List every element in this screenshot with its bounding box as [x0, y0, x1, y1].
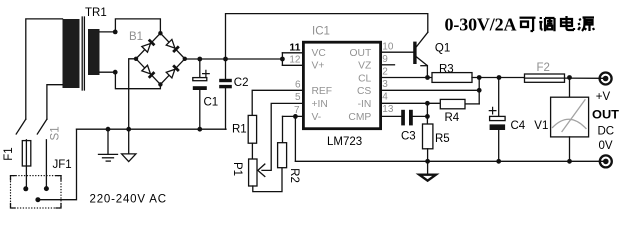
- node R3 right: [477, 75, 482, 80]
- svg-text:REF: REF: [312, 86, 333, 97]
- output rail after R3: [472, 77, 525, 79]
- terminal 0V: [600, 155, 612, 167]
- svg-text:CL: CL: [358, 73, 371, 84]
- node JF1 pin L: [23, 186, 28, 191]
- svg-text:10: 10: [382, 41, 394, 52]
- wire pole2 to JF1: [45, 140, 47, 189]
- svg-text:9: 9: [382, 54, 388, 65]
- node pin11-12 feed: [280, 57, 285, 62]
- wire primary top: [26, 19, 63, 119]
- resistor R4: [440, 99, 465, 108]
- fuse F2: [525, 74, 565, 82]
- diode D1 top-left: [142, 39, 156, 53]
- node earth junction: [106, 127, 111, 132]
- svg-text:VZ: VZ: [358, 61, 371, 72]
- wire P1 bottom to R2 bottom: [253, 168, 282, 192]
- wire primary bottom: [47, 85, 63, 120]
- svg-text:R4: R4: [445, 112, 460, 124]
- diode D2 top-right: [166, 39, 180, 53]
- svg-text:6: 6: [295, 80, 301, 91]
- svg-text:JF1: JF1: [53, 159, 72, 171]
- svg-text:12: 12: [289, 54, 301, 65]
- svg-text:C4: C4: [511, 120, 526, 132]
- hanzi DIAN: [561, 16, 574, 30]
- wire secondary bottom to bridge: [100, 72, 161, 89]
- svg-text:DC: DC: [598, 125, 615, 137]
- pin 9 stub: [381, 64, 395, 66]
- wire F2 to +V: [565, 77, 604, 79]
- fuse F1: [22, 141, 31, 166]
- node bridge AC top: [158, 31, 162, 35]
- node bridge AC bottom: [158, 82, 162, 86]
- node C4 feed: [497, 75, 502, 80]
- diode D4 bottom-right: [166, 64, 180, 78]
- svg-text:V+: V+: [312, 61, 325, 72]
- pin 2 wire to R3: [381, 77, 432, 79]
- node R3 left: [425, 75, 430, 80]
- node C2 top: [223, 57, 228, 62]
- earth ground: [99, 129, 118, 161]
- svg-text:R2: R2: [288, 168, 300, 183]
- node C1 bottom: [197, 127, 202, 132]
- node bridge minus bus: [126, 127, 131, 132]
- node R4 left: [425, 101, 430, 106]
- wire bridge plus rail: [185, 58, 283, 60]
- svg-text:5: 5: [295, 92, 301, 103]
- pin 4 wire to R4: [381, 102, 440, 104]
- svg-text:3: 3: [382, 79, 388, 90]
- pin 3 wire: [381, 89, 479, 91]
- resistor R3: [432, 73, 472, 83]
- resistor R1: [248, 115, 256, 143]
- svg-text:V1: V1: [534, 120, 548, 132]
- capacitor C1: [193, 59, 209, 129]
- node secondary bottom: [113, 70, 118, 75]
- node JF1 pin N: [44, 186, 49, 191]
- svg-text:13: 13: [382, 104, 394, 115]
- svg-text:-IN: -IN: [358, 99, 372, 110]
- wire R5 to bus: [427, 149, 429, 162]
- voltmeter V1: [551, 78, 589, 162]
- svg-text:+IN: +IN: [312, 99, 328, 110]
- wire rail to IC pins 11 12: [282, 53, 303, 66]
- wire R3left junction drop: [426, 103, 428, 124]
- capacitor C2: [219, 59, 232, 129]
- bridge rectifier B1: [136, 33, 185, 84]
- svg-text:7: 7: [294, 105, 300, 116]
- hanzi YUAN: [578, 18, 594, 32]
- chevron ground: [419, 161, 436, 180]
- node C4 bottom: [496, 159, 501, 164]
- switch S1 pole 2 blade: [37, 119, 47, 134]
- svg-text:0V: 0V: [599, 140, 613, 152]
- svg-text:Q1: Q1: [435, 43, 450, 55]
- svg-text:C2: C2: [234, 77, 249, 89]
- svg-text:CMP: CMP: [348, 112, 371, 123]
- node secondary top: [113, 30, 118, 35]
- svg-text:P1: P1: [231, 162, 243, 176]
- capacitor C4: [489, 78, 505, 162]
- svg-text:C1: C1: [204, 97, 219, 109]
- wire top feed: [226, 14, 428, 59]
- capacitor C3: [401, 110, 427, 126]
- svg-text:V-: V-: [312, 112, 322, 123]
- potentiometer P1: [249, 159, 257, 186]
- pin 5 wire to P1 wiper: [262, 103, 303, 170]
- terminal +V: [600, 73, 612, 85]
- svg-text:VC: VC: [312, 48, 327, 59]
- svg-text:R5: R5: [435, 133, 450, 145]
- wire R1 to P1: [251, 143, 253, 159]
- triangle ground: [122, 129, 136, 161]
- svg-text:11: 11: [289, 42, 300, 54]
- wire JF1 pin3 to ground bus: [38, 129, 77, 200]
- node V1 feed: [567, 75, 572, 80]
- svg-text:R1: R1: [232, 123, 247, 135]
- wire pole1 to F1 to JF1: [25, 140, 27, 189]
- pin 7 wire: [283, 115, 304, 117]
- node C1 top: [197, 57, 202, 62]
- svg-text:4: 4: [382, 92, 388, 103]
- node CS sense: [477, 88, 482, 93]
- wire secondary top to bridge: [100, 19, 161, 33]
- transistor Q1: [413, 32, 428, 77]
- node JF1 pin E: [35, 197, 40, 202]
- connector JF1 dashed box: [11, 176, 62, 208]
- switch S1 pole 1 blade: [16, 119, 26, 134]
- node C3 out: [425, 114, 430, 119]
- pin 13 wire: [381, 115, 401, 117]
- transformer TR1: [63, 17, 100, 90]
- svg-text:OUT: OUT: [350, 48, 372, 59]
- diode D3 bottom-left: [142, 65, 156, 79]
- svg-text:R3: R3: [439, 63, 454, 75]
- hanzi KE: [520, 18, 536, 31]
- resistor R2: [278, 143, 287, 168]
- wire pin7 to 0V bus: [294, 116, 296, 161]
- svg-text:F2: F2: [537, 62, 550, 74]
- IC internal labels: [312, 48, 372, 123]
- wire ground bus left: [77, 128, 227, 130]
- svg-text:B1: B1: [129, 31, 143, 43]
- node bridge minus: [134, 57, 138, 61]
- wire R3 right drop: [478, 78, 480, 104]
- svg-text:TR1: TR1: [85, 7, 107, 19]
- title hanzi 可调电源 hand drawn: [520, 16, 595, 31]
- wire bridge minus to bus: [129, 59, 136, 129]
- svg-text:F1: F1: [3, 147, 15, 160]
- node R5 ground: [425, 159, 430, 164]
- svg-text:IC1: IC1: [312, 26, 330, 38]
- svg-text:+V: +V: [596, 91, 611, 103]
- svg-text:LM723: LM723: [327, 136, 362, 148]
- resistor R5: [423, 124, 433, 149]
- IC U1 LM723 body: [303, 42, 380, 129]
- wire pin7 to R2: [282, 116, 284, 142]
- node pin7 junction: [293, 114, 298, 119]
- pin numbers: [289, 41, 393, 116]
- pin 6 wire to R1: [252, 90, 303, 115]
- pin 10 wire to Q1 base: [381, 51, 413, 53]
- svg-text:S1: S1: [50, 126, 62, 140]
- P1 wiper arrowhead: [258, 164, 265, 176]
- node V1 bottom: [567, 159, 572, 164]
- 0V bus: [295, 160, 603, 162]
- svg-text:0-30V/2A: 0-30V/2A: [445, 15, 517, 35]
- node bridge plus: [183, 57, 187, 61]
- svg-text:CS: CS: [357, 86, 371, 97]
- svg-text:OUT: OUT: [592, 110, 619, 122]
- svg-text:C3: C3: [401, 130, 416, 142]
- svg-text:220-240V AC: 220-240V AC: [90, 194, 167, 206]
- svg-text:2: 2: [382, 66, 388, 77]
- hanzi DIAO: [539, 17, 554, 31]
- wire R4 right: [465, 103, 479, 105]
